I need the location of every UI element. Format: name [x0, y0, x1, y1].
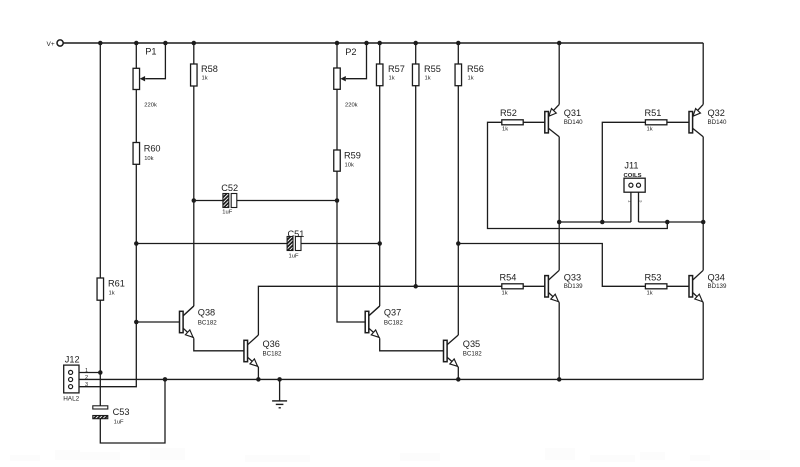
label J11 — [624, 161, 638, 171]
label P1 value 220k — [144, 103, 157, 109]
wire Q38 emitter to Q36 base — [194, 338, 244, 351]
label R53 value 1k — [647, 291, 653, 297]
label R54 value 1k — [502, 291, 508, 297]
svg-text:BC182: BC182 — [384, 320, 403, 327]
junction on V+ rail — [377, 41, 382, 46]
wire R52 left to Q32 collector node — [488, 122, 668, 228]
node Q32 collector / J11 pin2 wire — [701, 220, 706, 225]
node J12 pin1 / R61 / C53 — [98, 370, 103, 375]
junction on V+ rail — [557, 41, 562, 46]
svg-text:1k: 1k — [202, 76, 208, 82]
svg-text:R58: R58 — [201, 64, 218, 74]
label R55 value 1k — [425, 76, 431, 82]
label Q35 — [463, 339, 480, 349]
svg-text:C53: C53 — [113, 407, 130, 417]
label R52 value 1k — [502, 127, 508, 133]
label C52 — [221, 183, 238, 193]
node R60 / C51 wire — [134, 241, 139, 246]
label Q32 — [708, 108, 725, 118]
wire Q38 collector diagonal — [183, 306, 194, 316]
svg-text:1k: 1k — [109, 291, 115, 297]
label Q37 type BC182 — [384, 320, 403, 327]
svg-text:HAL2: HAL2 — [63, 396, 79, 403]
node C52 right / R59 — [335, 198, 340, 203]
svg-text:BD139: BD139 — [708, 283, 727, 290]
node Q38 base tee — [134, 320, 139, 325]
connector J12 pin3 circle — [69, 385, 73, 389]
wire Q31 emitter from V+ rail — [558, 43, 560, 104]
label C52 value 1uF — [222, 210, 232, 216]
wire J11 pin2 down — [638, 192, 640, 222]
wire Q32 collector down — [702, 137, 704, 222]
label Q35 type BC182 — [463, 351, 482, 358]
wire Q38 base — [136, 321, 179, 323]
wire V+ rail to R58 — [193, 43, 195, 64]
wire R59 to C52 node — [336, 171, 338, 200]
resistor R53 — [645, 284, 667, 289]
connector J12 body — [64, 365, 79, 393]
label Q38 — [198, 308, 215, 318]
label R57 value 1k — [389, 76, 395, 82]
wire R55 down to Q36 collector wire — [415, 86, 417, 287]
label Q36 type BC182 — [263, 351, 282, 358]
wire Q31 collector down — [558, 137, 560, 222]
resistor R58 — [191, 64, 198, 86]
wire Q33 emitter to ground rail — [558, 302, 560, 379]
label R52 — [500, 108, 517, 118]
junction on V+ rail — [413, 41, 418, 46]
label R57 — [388, 64, 405, 74]
svg-text:BC182: BC182 — [263, 351, 282, 358]
wire C51 to R57 node — [301, 243, 380, 245]
node Q36 emitter on rail — [256, 377, 261, 382]
svg-text:R55: R55 — [424, 64, 441, 74]
svg-text:BC182: BC182 — [198, 320, 217, 327]
wire Q32 emitter from V+ rail corner — [702, 43, 704, 104]
svg-text:1k: 1k — [389, 76, 395, 82]
label Q36 — [263, 339, 280, 349]
wire V+ rail to R56 — [457, 43, 459, 64]
wire P2 to R59 — [336, 89, 338, 150]
svg-text:R51: R51 — [645, 108, 662, 118]
connector J11 body — [624, 178, 645, 192]
wire Q34 emitter to ground rail corner — [702, 302, 704, 379]
wire C52 node down to Q37 base — [337, 201, 365, 323]
label Q38 type BC182 — [198, 320, 217, 327]
resistor R61 — [97, 278, 104, 300]
label Q31 type BD140 — [564, 119, 583, 126]
svg-text:V+: V+ — [47, 41, 55, 48]
wire V+ rail to P2 — [336, 43, 338, 68]
svg-text:Q38: Q38 — [198, 308, 215, 318]
wire J11 pin1 to Q31 collector — [559, 221, 631, 223]
wire Q34 collector up to J11 pin2 node — [702, 222, 704, 270]
wire node down to Q37 collector — [379, 244, 381, 307]
label Q33 — [564, 273, 581, 283]
svg-text:R60: R60 — [144, 144, 161, 154]
label R61 value 1k — [109, 291, 115, 297]
resistor R55 — [412, 64, 419, 86]
svg-text:C51: C51 — [288, 229, 305, 239]
connector J12 pin2 circle — [69, 377, 73, 381]
svg-text:Q33: Q33 — [564, 273, 581, 283]
wire R60 down to node — [135, 164, 137, 243]
capacitor C51 — [287, 237, 301, 251]
transistor Q34 — [689, 270, 703, 302]
wire P1 wiper — [145, 43, 165, 79]
V+ supply terminal — [57, 40, 63, 46]
svg-text:1k: 1k — [502, 127, 508, 133]
wire down to J12 pin3 — [79, 322, 136, 387]
wire bottom rail — [79, 378, 703, 380]
node R57 / C51 right wire — [377, 241, 382, 246]
junction on V+ rail — [98, 41, 103, 46]
wire node down to Q38 base node — [135, 244, 137, 323]
wire R58 to C52 node — [193, 86, 195, 201]
label Q33 type BD139 — [564, 283, 583, 290]
label R56 — [467, 64, 484, 74]
wire ground stem — [279, 379, 281, 401]
svg-text:1k: 1k — [425, 76, 431, 82]
resistor R59 — [334, 150, 341, 171]
svg-text:R56: R56 — [467, 64, 484, 74]
label P2 value 220k — [345, 103, 358, 109]
P1 wiper arrow — [140, 76, 145, 81]
wire R53 right to Q34 base — [667, 285, 689, 287]
wire node down to Q35 collector — [457, 244, 459, 336]
node R56 / wire to R53 — [456, 241, 461, 246]
svg-text:Q31: Q31 — [564, 108, 581, 118]
svg-text:1uF: 1uF — [114, 420, 124, 426]
potentiometer P1 body — [133, 68, 140, 89]
label C51 — [288, 229, 305, 239]
resistor R56 — [455, 64, 462, 86]
resistor R51 — [645, 120, 667, 125]
label Q31 — [564, 108, 581, 118]
wire R54 right to Q33 base — [523, 285, 545, 287]
transistor Q38 — [180, 306, 194, 338]
label J12 — [65, 355, 80, 365]
junction on V+ rail — [456, 41, 461, 46]
label R53 — [645, 273, 662, 283]
svg-text:1uF: 1uF — [222, 210, 232, 216]
junction on V+ rail — [192, 41, 197, 46]
node R52 wire / J11 pin2 wire — [665, 220, 670, 225]
label R51 — [645, 108, 662, 118]
capacitor C52 — [223, 194, 237, 208]
transistor Q35 — [444, 335, 459, 367]
connector J11 pin1 circle — [629, 183, 633, 187]
svg-text:R59: R59 — [344, 151, 361, 161]
junction on V+ rail — [335, 41, 340, 46]
svg-text:1k: 1k — [468, 76, 474, 82]
label R59 value 10k — [345, 163, 354, 169]
label R60 — [144, 144, 161, 154]
label C53 — [113, 407, 130, 417]
svg-text:BC182: BC182 — [463, 351, 482, 358]
potentiometer P2 body — [334, 68, 341, 89]
label R54 — [500, 273, 517, 283]
label V+ — [47, 41, 55, 48]
svg-text:R53: R53 — [645, 273, 662, 283]
svg-text:Q34: Q34 — [708, 273, 725, 283]
svg-text:2: 2 — [85, 375, 88, 381]
wire V+ rail to P1 — [135, 43, 137, 68]
svg-text:P1: P1 — [145, 47, 156, 57]
label Q34 type BD139 — [708, 283, 727, 290]
junction on V+ rail — [134, 41, 139, 46]
J12 pin number 1 — [85, 368, 88, 374]
wire node down to Q38 collector — [193, 201, 195, 307]
label C53 value 1uF — [114, 420, 124, 426]
svg-text:1uF: 1uF — [289, 254, 299, 260]
wire P1 to R60 — [135, 90, 137, 143]
wire Q36 collector up to R54 wire — [258, 286, 501, 335]
wire top V+ rail — [63, 42, 703, 44]
J11 pin number 1 — [628, 200, 633, 203]
svg-text:1k: 1k — [647, 127, 653, 133]
svg-text:Q36: Q36 — [263, 339, 280, 349]
wire V+ rail to R61 — [99, 43, 101, 278]
svg-text:R61: R61 — [108, 279, 125, 289]
wire C52 left — [194, 200, 223, 202]
ground symbol — [272, 401, 287, 408]
svg-text:C52: C52 — [221, 183, 238, 193]
node Q33 emitter on rail — [557, 377, 562, 382]
svg-text:BD140: BD140 — [564, 119, 583, 126]
label P2 — [345, 47, 356, 57]
label C51 value 1uF — [289, 254, 299, 260]
svg-text:BD139: BD139 — [564, 283, 583, 290]
wire J12 pin1 to R61 node — [79, 372, 100, 374]
wire C52 right — [237, 200, 337, 202]
resistor R54 — [502, 284, 523, 289]
svg-text:Q32: Q32 — [708, 108, 725, 118]
resistor R57 — [376, 64, 383, 86]
svg-text:COILS: COILS — [624, 173, 642, 179]
faint artifact strip — [10, 448, 770, 462]
node C53 loop on rail — [163, 377, 168, 382]
label R60 value 10k — [144, 156, 153, 162]
capacitor C53 — [93, 406, 108, 419]
wire V+ rail to R55 — [415, 43, 417, 64]
resistor R52 — [502, 120, 523, 125]
wire R61 to J12 pin1 node — [99, 300, 101, 372]
wire Q37 emitter to Q35 base — [380, 338, 444, 351]
svg-text:1k: 1k — [502, 291, 508, 297]
connector J11 pin2 circle — [636, 183, 640, 187]
transistor Q32 — [689, 104, 703, 136]
label R51 value 1k — [647, 127, 653, 133]
svg-text:10k: 10k — [345, 163, 354, 169]
wire R51 right to Q32 base — [667, 121, 689, 123]
wire R60 node to C51 — [136, 243, 287, 245]
wire R57 down to C51 node — [379, 86, 381, 244]
wire node to C53 — [99, 373, 101, 407]
label R56 value 1k — [468, 76, 474, 82]
node R51 wire / J11 pin1 wire — [600, 220, 605, 225]
label R55 — [424, 64, 441, 74]
J12 pin number 3 — [85, 382, 88, 388]
svg-text:1k: 1k — [647, 291, 653, 297]
J12 pin number 2 — [85, 375, 88, 381]
svg-text:220k: 220k — [345, 103, 358, 109]
svg-text:R57: R57 — [388, 64, 405, 74]
wire P2 wiper — [346, 43, 367, 79]
transistor Q37 — [365, 306, 380, 338]
label P1 — [145, 47, 156, 57]
svg-text:Q37: Q37 — [384, 308, 401, 318]
label R61 — [108, 279, 125, 289]
svg-text:220k: 220k — [144, 103, 157, 109]
transistor Q36 — [244, 335, 258, 367]
wire R56 down to wire B node — [457, 86, 459, 244]
node Q35 emitter on rail — [456, 377, 461, 382]
node ground on rail — [277, 377, 282, 382]
wire J11 pin1 down — [630, 192, 632, 222]
transistor Q31 — [545, 104, 559, 136]
node R58 / C52 left — [192, 198, 197, 203]
node Q31 collector / J11 pin1 wire — [557, 220, 562, 225]
wire R51 left down to J11 pin1 wire — [602, 122, 645, 222]
resistor R60 — [133, 143, 140, 165]
connector J12 pin1 circle — [69, 370, 73, 374]
label R59 — [344, 151, 361, 161]
node R55 bottom on base wire — [413, 284, 418, 289]
wire R52 right to Q31 base — [523, 121, 545, 123]
wire J11 pin2 to Q32 collector — [639, 221, 704, 223]
svg-text:J11: J11 — [624, 161, 638, 171]
label J12 HAL2 — [63, 396, 79, 403]
svg-text:10k: 10k — [144, 156, 153, 162]
transistor Q33 — [545, 270, 559, 302]
svg-text:3: 3 — [85, 382, 88, 388]
svg-text:P2: P2 — [345, 47, 356, 57]
label R58 — [201, 64, 218, 74]
label Q32 type BD140 — [708, 119, 727, 126]
label R58 value 1k — [202, 76, 208, 82]
wire Q35 emitter to ground rail — [457, 367, 459, 379]
wire V+ rail to R57 — [379, 43, 381, 64]
J11 pin number 2 — [637, 200, 642, 203]
svg-text:R54: R54 — [500, 273, 517, 283]
wire Q33 collector up to J11 pin1 node — [558, 222, 560, 270]
svg-text:R52: R52 — [500, 108, 517, 118]
wire C53 bottom loop to rail — [100, 379, 165, 443]
svg-text:BD140: BD140 — [708, 119, 727, 126]
junction on V+ rail — [364, 41, 369, 46]
wire R56 node to R53 — [458, 244, 645, 287]
junction on V+ rail — [163, 41, 168, 46]
wire Q36 emitter to ground rail — [257, 367, 259, 379]
P2 wiper arrow — [340, 76, 345, 81]
svg-text:J12: J12 — [65, 355, 80, 365]
svg-text:Q35: Q35 — [463, 339, 480, 349]
label Q37 — [384, 308, 401, 318]
label J11 COILS — [624, 173, 642, 179]
wire Q37 collector diagonal — [369, 306, 380, 316]
label Q34 — [708, 273, 725, 283]
